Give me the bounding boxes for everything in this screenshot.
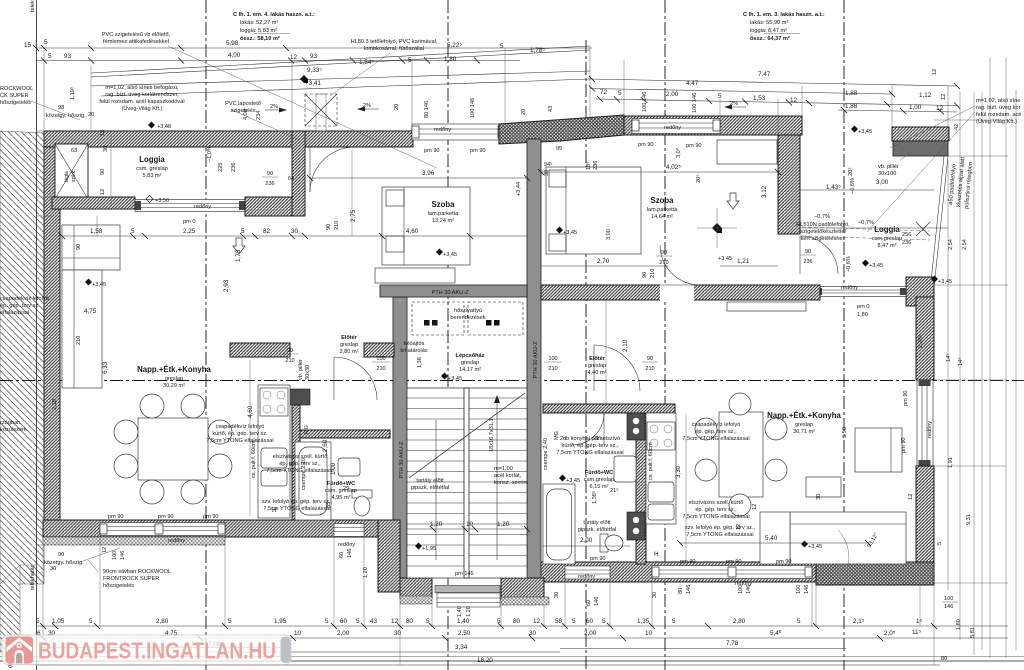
- bottom window left: [100, 523, 225, 536]
- svg-text:30x100: 30x100: [878, 171, 896, 177]
- svg-text:gipszk. előtétfal: gipszk. előtétfal: [411, 485, 450, 491]
- bath top wall left: [300, 430, 390, 438]
- nappali right label: [767, 411, 841, 435]
- svg-text:210: 210: [650, 269, 656, 278]
- svg-text:PVC lapostető: PVC lapostető: [225, 101, 261, 107]
- svg-text:hőszivattyú: hőszivattyú: [454, 308, 482, 314]
- toilet right: [600, 534, 608, 552]
- svg-text:telekhatár: telekhatár: [30, 0, 36, 12]
- svg-text:7,5cm YTONG elfalazással: 7,5cm YTONG elfalazással: [266, 468, 333, 474]
- svg-text:közetgy. hőszig.: közetgy. hőszig.: [46, 113, 86, 119]
- svg-text:4,00: 4,00: [228, 52, 241, 59]
- svg-text:3,00: 3,00: [876, 179, 889, 186]
- svg-text:Előtér: Előtér: [589, 356, 606, 362]
- svg-text:csm.greslap: csm.greslap: [872, 236, 902, 242]
- sideboard left szoba: [375, 268, 455, 283]
- svg-text:+3,50: +3,50: [155, 198, 169, 204]
- svg-text:60: 60: [339, 552, 345, 558]
- svg-text:18⁸: 18⁸: [585, 161, 592, 170]
- svg-text:90: 90: [642, 272, 648, 278]
- svg-text:greslap: greslap: [340, 342, 358, 348]
- svg-text:20⁵: 20⁵: [695, 174, 702, 183]
- axis A x=206: [205, 0, 207, 670]
- svg-text:2,00: 2,00: [584, 630, 597, 637]
- svg-text:90cm sávban ROCKWOOL: 90cm sávban ROCKWOOL: [103, 569, 171, 575]
- svg-text:256: 256: [902, 232, 911, 238]
- right living 5,40 dim: [680, 542, 868, 544]
- svg-text:98: 98: [58, 105, 64, 111]
- svg-text:210: 210: [76, 336, 82, 345]
- elotér left label: [340, 335, 359, 355]
- interior dim labels right: [580, 164, 889, 544]
- svg-text:5: 5: [618, 90, 622, 97]
- attika sloped edge: [91, 46, 590, 73]
- tégla szék label: [64, 130, 109, 195]
- parapet sloped line: [101, 79, 590, 96]
- elotér right label: [588, 356, 607, 376]
- svg-text:H: H: [654, 551, 659, 558]
- svg-text:100: 100: [796, 585, 802, 594]
- note PVC lapostetö: [225, 101, 261, 114]
- svg-text:236: 236: [231, 163, 237, 172]
- svg-text:2,50: 2,50: [458, 630, 471, 637]
- svg-text:10: 10: [466, 521, 474, 528]
- svg-text:−1,0%: −1,0%: [207, 146, 213, 162]
- svg-text:kürtő, ép. gép. terv sz.: kürtő, ép. gép. terv sz.: [212, 431, 268, 437]
- slope 2% arrows: [265, 101, 746, 113]
- svg-text:30: 30: [652, 592, 658, 598]
- svg-text:m=1,02, alsó síne: m=1,02, alsó síne: [976, 98, 1020, 104]
- svg-text:4,00: 4,00: [243, 109, 249, 120]
- svg-text:1,88: 1,88: [845, 103, 858, 110]
- svg-text:5,4⁰: 5,4⁰: [770, 630, 782, 637]
- property line bottom: [0, 660, 1024, 662]
- svg-text:1,20: 1,20: [363, 567, 369, 578]
- svg-text:kürtő, ép. gép. terv sz.,: kürtő, ép. gép. terv sz.,: [562, 443, 619, 449]
- svg-text:82: 82: [263, 228, 271, 235]
- svg-text:gipszk. előtétfal: gipszk. előtétfal: [578, 527, 617, 533]
- svg-text:2,00: 2,00: [666, 91, 679, 98]
- ø50 note rotated: [948, 156, 974, 209]
- svg-text:30: 30: [103, 146, 109, 152]
- right loggia dim lines: [800, 189, 934, 191]
- rotated window specs top: [394, 69, 938, 118]
- svg-text:80 146: 80 146: [424, 101, 430, 118]
- svg-text:3,96: 3,96: [422, 170, 435, 177]
- toilet left: [352, 490, 372, 498]
- bottom dim labels row2: [37, 629, 922, 637]
- svg-text:tartály előtt: tartály előtt: [416, 478, 444, 484]
- svg-text:rzágban: rzágban: [0, 420, 20, 426]
- svg-text:146: 146: [804, 585, 810, 594]
- dim ticks interior: [59, 169, 871, 546]
- svg-text:pm 90: pm 90: [901, 437, 907, 453]
- step wall down to stairs: [378, 520, 400, 592]
- szoba left label: [428, 200, 460, 224]
- svg-text:7,47: 7,47: [758, 71, 771, 78]
- svg-text:2,93: 2,93: [223, 279, 230, 292]
- loggia south wall: [52, 197, 135, 209]
- loggia right label: [872, 225, 902, 249]
- bottom dim row 3: [40, 647, 290, 649]
- svg-text:2,0⁵: 2,0⁵: [884, 630, 896, 637]
- stair steps: [407, 398, 527, 566]
- title block apartment 3: [743, 12, 825, 42]
- chimney block lower: [627, 512, 645, 540]
- svg-text:60: 60: [340, 618, 348, 625]
- kitchen counter right: [646, 413, 676, 524]
- svg-text:5: 5: [131, 228, 135, 235]
- nappali left label: [137, 365, 211, 389]
- svg-text:11⁵: 11⁵: [912, 629, 922, 636]
- svg-text:pm 90: pm 90: [108, 514, 124, 520]
- svg-text:pm 90: pm 90: [903, 390, 909, 406]
- top wall left apartment: [44, 131, 292, 147]
- svg-text:pm 145: pm 145: [455, 571, 474, 577]
- loggia right center mark: [697, 208, 737, 248]
- svg-text:2db konyhai páraelszívó: 2db konyhai páraelszívó: [560, 436, 620, 442]
- down arrow marker szoba left: [233, 238, 245, 254]
- svg-text:210: 210: [645, 366, 654, 372]
- left margin small notes: [0, 296, 49, 316]
- stove right: [647, 422, 675, 450]
- bottom dim row 2: [36, 637, 1008, 639]
- svg-text:1,12: 1,12: [919, 92, 932, 99]
- kitchen notes left: [206, 424, 273, 444]
- svg-text:1,35: 1,35: [637, 618, 650, 625]
- loggia corner pillar box: [55, 144, 88, 199]
- fürdö left label: [325, 481, 357, 501]
- svg-text:CK SUPER: CK SUPER: [0, 93, 29, 99]
- watermark logo square: [6, 637, 34, 664]
- svg-text:94⁵: 94⁵: [544, 161, 553, 168]
- right dim 7,47: [590, 79, 957, 86]
- svg-text:redőny: redőny: [664, 125, 681, 131]
- svg-text:210: 210: [659, 260, 668, 266]
- right top window: [632, 119, 720, 134]
- svg-text:1,05: 1,05: [52, 618, 65, 625]
- svg-text:5,98: 5,98: [226, 40, 239, 47]
- svg-text:lehatárolás: lehatárolás: [400, 348, 428, 354]
- bottom dim labels row3: [208, 640, 739, 664]
- svg-text:2,00: 2,00: [580, 537, 593, 544]
- svg-text:5: 5: [408, 57, 412, 64]
- svg-text:30,29 m²: 30,29 m²: [163, 383, 185, 389]
- svg-text:1,80: 1,80: [956, 619, 962, 630]
- svg-text:5,83 m²: 5,83 m²: [143, 173, 162, 179]
- svg-text:greslap: greslap: [588, 363, 606, 369]
- wall loggia/szoba divider: [292, 131, 305, 216]
- svg-text:6,15 m²: 6,15 m²: [590, 484, 609, 490]
- svg-text:9,31: 9,31: [966, 514, 972, 525]
- bathtub right: [543, 484, 575, 564]
- partition nappali/elotér left: [230, 343, 290, 357]
- leader right m=1,02: [890, 106, 975, 148]
- svg-text:80: 80: [941, 656, 947, 662]
- svg-text:30: 30: [394, 630, 402, 637]
- svg-text:csempe 2,40: csempe 2,40: [543, 438, 549, 470]
- loggia top strip: [892, 127, 949, 141]
- svg-text:szigetelőkészlettel: szigetelőkészlettel: [800, 229, 845, 235]
- nappali/szoba dim line: [62, 235, 527, 237]
- right szoba 2,70 dim: [541, 265, 668, 267]
- svg-text:4,75: 4,75: [84, 308, 97, 315]
- svg-text:2%: 2%: [270, 104, 278, 110]
- svg-text:14,64 m²: 14,64 m²: [651, 214, 673, 220]
- note m=1,02 right margin: [976, 98, 1021, 125]
- svg-text:43: 43: [370, 618, 378, 625]
- svg-text:loggia: 5,83 m²: loggia: 5,83 m²: [240, 28, 277, 34]
- svg-text:100: 100: [944, 596, 953, 602]
- interior dim labels left: [84, 170, 435, 508]
- svg-text:7,5cm YTONG elfalazással: 7,5cm YTONG elfalazással: [682, 436, 749, 442]
- bottom dim row 18,20: [36, 664, 940, 666]
- stair rail note: [494, 466, 529, 486]
- svg-text:90: 90: [661, 250, 667, 256]
- bath window left apartment: [334, 524, 364, 537]
- interior dim extension verticals: [110, 134, 112, 206]
- svg-text:PTH 30 AKU-Z: PTH 30 AKU-Z: [432, 290, 470, 296]
- svg-text:14⁵: 14⁵: [945, 353, 952, 362]
- left bottom window specs: [50, 524, 742, 606]
- svg-text:12: 12: [391, 618, 399, 625]
- roof drain X top: [305, 94, 337, 131]
- svg-text:100 146: 100 146: [692, 93, 698, 113]
- chairs right dining: [729, 393, 751, 415]
- svg-text:210: 210: [548, 366, 557, 372]
- left wall top vertical ext: [90, 66, 92, 131]
- svg-text:4,60: 4,60: [247, 405, 254, 418]
- svg-text:(Üveg-Világ Kft.): (Üveg-Világ Kft.): [976, 118, 1017, 125]
- svg-text:90: 90: [76, 244, 82, 250]
- lépcsöház label: [456, 353, 485, 373]
- svg-text:össz.: 64,37 m²: össz.: 64,37 m²: [750, 35, 790, 42]
- svg-text:vb. pillér: vb. pillér: [878, 164, 899, 170]
- svg-text:234: 234: [256, 111, 262, 120]
- kitchen/bath wall left: [292, 405, 300, 520]
- bottom wall right apartment: [540, 562, 816, 582]
- pm labels bottom: [108, 304, 909, 565]
- svg-text:MG: MG: [554, 431, 560, 440]
- loggia SE corner wall: [906, 277, 934, 306]
- svg-text:pm 0: pm 0: [183, 219, 195, 225]
- living window bottom right: [652, 566, 812, 579]
- axis B x=448: [447, 0, 449, 670]
- chimney block upper: [627, 413, 645, 440]
- svg-text:pm 90: pm 90: [638, 142, 654, 148]
- svg-text:ROCKWOOL: ROCKWOOL: [0, 86, 33, 92]
- svg-text:63: 63: [71, 148, 77, 154]
- svg-text:2,80: 2,80: [733, 618, 746, 625]
- axis D x=665: [664, 0, 666, 670]
- svg-text:10: 10: [645, 630, 653, 637]
- right outer wall lower: [916, 466, 934, 564]
- svg-text:30: 30: [50, 566, 56, 572]
- svg-text:C lh. 1. em. 3. lakás haszn. a: C lh. 1. em. 3. lakás haszn. a.t.:: [743, 12, 825, 18]
- stairwell outline: [407, 388, 527, 578]
- stair handrail: [464, 388, 469, 578]
- door arc szoba left: [310, 147, 355, 192]
- svg-text:5,40: 5,40: [765, 535, 778, 542]
- sink right: [648, 482, 674, 502]
- svg-text:Szoba: Szoba: [651, 196, 675, 205]
- svg-text:greslap: greslap: [795, 422, 813, 428]
- svg-text:20: 20: [521, 109, 527, 115]
- svg-text:csempe 2,10: csempe 2,10: [301, 458, 307, 490]
- entry threshold: [435, 586, 500, 593]
- top dim row 2: [36, 60, 520, 62]
- svg-text:7,78: 7,78: [726, 640, 739, 647]
- svg-text:+3,45: +3,45: [92, 282, 106, 288]
- bottom right corner band: [816, 562, 934, 585]
- svg-text:redőny: redőny: [841, 285, 858, 291]
- svg-text:szv. lefolyó ép. gép. terv sz.: szv. lefolyó ép. gép. terv sz.,: [685, 525, 756, 531]
- svg-text:greslap: greslap: [165, 376, 183, 382]
- svg-text:redőny: redőny: [168, 538, 185, 544]
- door arc bath right: [572, 413, 604, 445]
- svg-text:80: 80: [406, 618, 414, 625]
- svg-text:15: 15: [24, 42, 32, 49]
- svg-text:93: 93: [64, 53, 72, 60]
- svg-text:1,54⁵: 1,54⁵: [359, 59, 374, 66]
- top wall right apartment: [624, 116, 802, 135]
- svg-text:5: 5: [228, 618, 232, 625]
- note ROCKWOOL top left: [0, 86, 80, 120]
- svg-text:PTH 30 AKU-Z: PTH 30 AKU-Z: [399, 441, 405, 479]
- svg-text:90: 90: [287, 348, 293, 354]
- svg-text:−0,6%: −0,6%: [850, 178, 856, 194]
- svg-text:telekhatár: telekhatár: [30, 565, 36, 590]
- bathtub left: [295, 442, 331, 520]
- svg-text:rag. bizt. üveg korlátrendszer: rag. bizt. üveg korlátrendszer,: [105, 92, 179, 98]
- svg-text:pm 90: pm 90: [203, 514, 219, 520]
- right szoba top dims small: [544, 146, 682, 240]
- svg-text:3,12: 3,12: [761, 185, 768, 198]
- coffee table right: [806, 477, 841, 497]
- insulation strip under bottom wall: [43, 537, 225, 545]
- right dining table: [719, 412, 763, 497]
- svg-text:2,60: 2,60: [322, 439, 329, 452]
- horizontal axis y=380: [0, 380, 1024, 382]
- sideboard right of mid band: [727, 302, 806, 311]
- left margin vertical dims mid: [52, 244, 82, 410]
- svg-text:Loggia: Loggia: [139, 155, 165, 164]
- svg-text:5,81: 5,81: [970, 627, 976, 638]
- right dim row: [596, 99, 957, 106]
- svg-text:−0,7%: −0,7%: [814, 214, 830, 220]
- svg-text:18x16,7x31,1: 18x16,7x31,1: [489, 418, 495, 452]
- svg-text:72: 72: [600, 89, 608, 96]
- svg-text:4,02⁵: 4,02⁵: [666, 164, 681, 171]
- svg-text:1⁵: 1⁵: [916, 618, 923, 625]
- svg-text:1,20: 1,20: [497, 521, 510, 528]
- svg-text:+3,45: +3,45: [808, 544, 822, 550]
- svg-text:1,36: 1,36: [417, 357, 423, 368]
- tartály right note: [578, 520, 617, 533]
- vb pillér labels: [878, 152, 912, 177]
- stair dim line: [407, 528, 527, 530]
- svg-text:cs. pult f. 60cm: cs. pult f. 60cm: [251, 440, 257, 478]
- svg-text:csm.greslap: csm.greslap: [584, 477, 614, 483]
- svg-text:236: 236: [803, 259, 812, 265]
- svg-text:2,10: 2,10: [622, 339, 629, 352]
- chairs left dining: [140, 394, 164, 418]
- svg-text:1,21: 1,21: [737, 258, 750, 265]
- svg-text:felül rozsdam. acél kapaszkodó: felül rozsdam. acél kapaszkodóval: [99, 99, 184, 105]
- watermark handle bar: [281, 637, 291, 664]
- sink left: [261, 448, 287, 468]
- stair bottom wall west: [400, 578, 432, 598]
- svg-text:12: 12: [908, 494, 914, 500]
- svg-text:BUDAPEST.INGATLAN.HU: BUDAPEST.INGATLAN.HU: [38, 638, 276, 664]
- right wall window: [917, 380, 933, 466]
- svg-text:közútszerk: közútszerk: [0, 427, 27, 433]
- svg-text:80: 80: [678, 588, 684, 594]
- svg-text:100: 100: [376, 356, 385, 362]
- svg-text:12: 12: [932, 69, 938, 75]
- svg-text:12: 12: [752, 504, 758, 510]
- svg-text:1,95: 1,95: [274, 618, 287, 625]
- svg-text:3,34: 3,34: [455, 644, 468, 651]
- svg-text:2,75: 2,75: [350, 209, 357, 222]
- svg-text:Szoba: Szoba: [432, 200, 456, 209]
- watermark pill background: [2, 635, 291, 665]
- svg-text:10: 10: [294, 630, 302, 637]
- leader HL80: [330, 53, 390, 96]
- svg-text:8,47 m²: 8,47 m²: [878, 243, 897, 249]
- svg-text:+3,45: +3,45: [858, 129, 872, 135]
- door arc elotér right: [594, 345, 640, 391]
- svg-text:HL80.3 tetőlefolyó, PVC karimá: HL80.3 tetőlefolyó, PVC karimával,: [351, 39, 438, 45]
- svg-text:elszívásos szell. kürtő: elszívásos szell. kürtő: [689, 500, 743, 506]
- svg-text:30: 30: [529, 630, 537, 637]
- corner wall block loggia SE: [245, 197, 305, 216]
- axis C x=586: [585, 40, 587, 670]
- svg-text:90: 90: [805, 249, 811, 255]
- svg-text:H: H: [272, 507, 277, 514]
- door arc loggia right: [800, 236, 838, 274]
- top dim labels row1: [24, 39, 545, 54]
- svg-text:1,80: 1,80: [444, 56, 457, 63]
- svg-text:+3,45: +3,45: [448, 376, 462, 382]
- vb pillar 30x30: [289, 389, 310, 405]
- sofa right: [790, 512, 906, 564]
- right margin extension lines: [934, 120, 1008, 583]
- svg-text:vb. pillér: vb. pillér: [298, 359, 304, 380]
- svg-text:MG: MG: [304, 425, 310, 434]
- szoba 3,96 dim line: [310, 177, 527, 179]
- svg-text:5: 5: [497, 618, 501, 625]
- svg-text:1,58: 1,58: [90, 228, 103, 235]
- svg-text:13,24 m²: 13,24 m²: [432, 218, 454, 224]
- svg-text:hőszigetelés: hőszigetelés: [0, 100, 31, 106]
- svg-text:2,00: 2,00: [337, 630, 350, 637]
- loggia south window: [135, 200, 245, 212]
- svg-text:30: 30: [544, 170, 550, 176]
- svg-text:12: 12: [102, 547, 108, 553]
- tolóajtós label: [400, 341, 428, 354]
- right margin dim columns: [947, 160, 949, 590]
- svg-text:60: 60: [586, 618, 594, 625]
- svg-text:12: 12: [100, 189, 106, 195]
- svg-text:+3,45: +3,45: [563, 230, 577, 236]
- svg-text:20: 20: [394, 104, 400, 110]
- svg-text:30,71 m²: 30,71 m²: [793, 429, 815, 435]
- svg-text:pm 90: pm 90: [158, 514, 174, 520]
- armchair right: [855, 428, 902, 472]
- svg-text:Lépcsőház: Lépcsőház: [456, 353, 485, 359]
- svg-text:2,25: 2,25: [183, 228, 196, 235]
